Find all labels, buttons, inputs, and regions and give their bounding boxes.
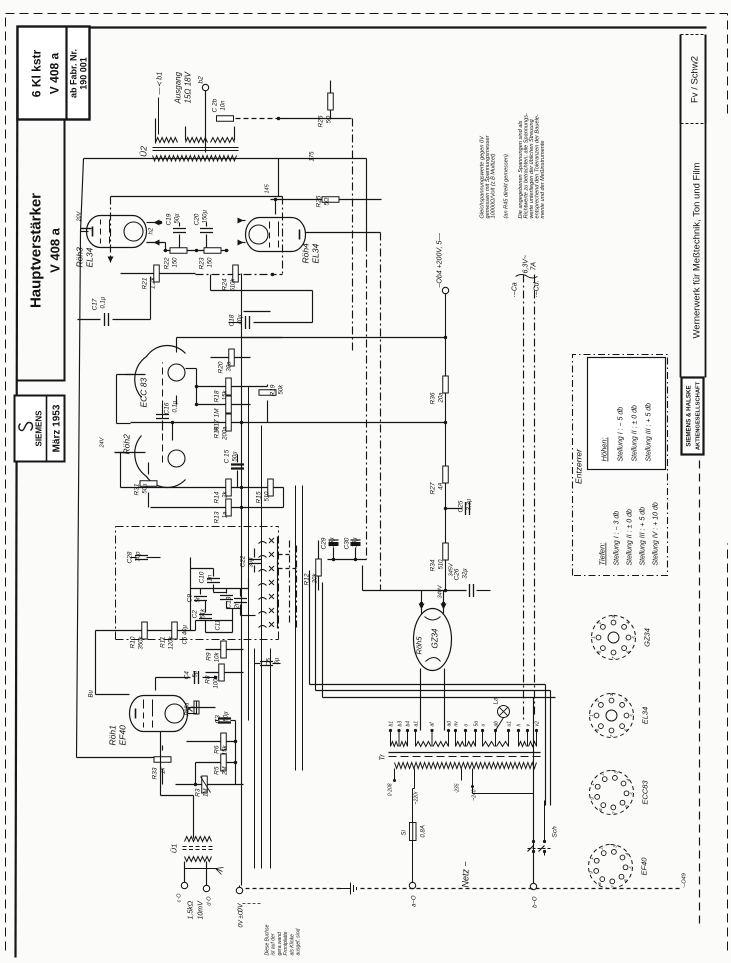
fuse Si bbox=[412, 841, 414, 884]
svg-text:·235: ·235 bbox=[455, 783, 461, 793]
svg-text:·–O49: ·–O49 bbox=[682, 873, 688, 888]
svg-text:C29: C29 bbox=[321, 537, 328, 549]
svg-text:nv: nv bbox=[454, 721, 460, 727]
svg-text:R5: R5 bbox=[214, 766, 221, 775]
svg-text:Sch: Sch bbox=[552, 826, 559, 838]
wire corners down to switch bbox=[545, 685, 547, 806]
terminal b1 wire bbox=[158, 98, 160, 135]
cap C4 bbox=[195, 671, 199, 684]
wire bus x295 bbox=[295, 486, 297, 771]
svg-text:C16: C16 bbox=[164, 402, 171, 414]
svg-text:20a: 20a bbox=[439, 392, 445, 404]
svg-text:pb: pb bbox=[494, 721, 500, 728]
svg-text:R27: R27 bbox=[430, 482, 437, 494]
svg-text:120k: 120k bbox=[169, 636, 175, 650]
svg-text:50µ: 50µ bbox=[175, 213, 181, 224]
svg-text:R13: R13 bbox=[214, 511, 221, 523]
wire Roeh4 top to R25 bbox=[275, 200, 277, 215]
transformer UE1 windings bbox=[185, 837, 212, 842]
cap C17 bbox=[105, 313, 109, 326]
wire 0V bus x241 bbox=[241, 274, 243, 886]
terminal 0V bbox=[236, 887, 242, 893]
svg-text:5Ω: 5Ω bbox=[327, 115, 333, 123]
wire EF40 grid to UE1 bbox=[160, 732, 162, 796]
svg-text:50µ: 50µ bbox=[143, 483, 149, 494]
ground bbox=[341, 883, 357, 895]
wires GZ34 anodes bbox=[420, 669, 422, 731]
terminal a bbox=[409, 882, 415, 888]
svg-text:C17: C17 bbox=[92, 298, 99, 310]
Hoehen table bbox=[588, 358, 666, 470]
svg-text:150: 150 bbox=[173, 257, 179, 268]
svg-text:b1: b1 bbox=[389, 721, 395, 727]
svg-text:2M: 2M bbox=[223, 767, 229, 776]
svg-text:b2: b2 bbox=[198, 76, 205, 84]
tube Roeh5 GZ34 bbox=[414, 609, 452, 671]
UE1 shield bbox=[185, 868, 216, 870]
wire cathode row y250 bbox=[164, 250, 229, 252]
Entzerrer box bbox=[573, 355, 668, 576]
svg-text:7A: 7A bbox=[531, 262, 538, 271]
svg-text:3,3µ: 3,3µ bbox=[467, 498, 473, 510]
svg-text:·R25a: ·R25a bbox=[185, 703, 191, 718]
svg-text:SIEMENS & HALSKE: SIEMENS & HALSKE bbox=[686, 385, 693, 446]
svg-text:V 408 a: V 408 a bbox=[48, 52, 62, 94]
svg-text:u1: u1 bbox=[507, 721, 513, 727]
cap C30 bbox=[351, 542, 361, 546]
svg-text:R8: R8 bbox=[205, 675, 212, 684]
cap C20 bbox=[200, 229, 213, 233]
wire dashdot x296 bbox=[296, 546, 298, 629]
cap C15 bbox=[231, 465, 244, 469]
wire coupling to EL34 grids bbox=[210, 275, 212, 291]
cap C2 bbox=[199, 615, 212, 619]
bottom strip: Wernerwerk cell bbox=[680, 124, 682, 378]
transformer Tr primary bbox=[395, 763, 537, 769]
svg-text:5n: 5n bbox=[196, 595, 202, 602]
wire C2b dashed to right bbox=[236, 118, 279, 120]
svg-text:5µ: 5µ bbox=[193, 670, 199, 677]
bottom strip: Fv/Schw2 cell bbox=[680, 35, 682, 124]
wire b2 to secondary bbox=[205, 91, 207, 153]
svg-text:·–Cd.: ·–Cd. bbox=[534, 280, 541, 297]
wire x235 join bbox=[235, 721, 237, 785]
dashed 0V line bottom bbox=[246, 888, 341, 890]
resistor R33 bbox=[154, 757, 171, 763]
svg-text:af: af bbox=[430, 722, 436, 727]
svg-text:C28: C28 bbox=[127, 551, 134, 563]
svg-text:Stellung I : − 5 db: Stellung I : − 5 db bbox=[618, 407, 625, 462]
svg-text:Röh2: Röh2 bbox=[122, 434, 132, 455]
svg-text:ab Fabr. Nr.: ab Fabr. Nr. bbox=[69, 49, 79, 98]
svg-text:C5: C5 bbox=[266, 658, 273, 667]
svg-text:mente und der Meßinstrumente: mente und der Meßinstrumente bbox=[540, 140, 546, 218]
svg-text:1n: 1n bbox=[208, 574, 214, 581]
svg-text:340V: 340V bbox=[438, 584, 444, 598]
svg-text:Stellung IV : + 10 db: Stellung IV : + 10 db bbox=[653, 502, 660, 565]
svg-text:40µ: 40µ bbox=[238, 314, 244, 325]
svg-text:Ü2: Ü2 bbox=[139, 146, 149, 157]
svg-text:50µ: 50µ bbox=[233, 451, 239, 462]
svg-text:R24: R24 bbox=[222, 278, 229, 290]
svg-text:0V ±O: 0V ±O bbox=[239, 910, 245, 927]
terminal Ob4 bbox=[442, 287, 448, 293]
transformer Tr secondaries bbox=[391, 742, 399, 747]
tube Roeh2 ECC83 system a bbox=[135, 346, 186, 398]
svg-text:a–O: a–O bbox=[412, 895, 418, 907]
svg-text:2: 2 bbox=[597, 621, 602, 625]
svg-text:Wernerwerk für Meßtechnik, Ton: Wernerwerk für Meßtechnik, Ton und Film bbox=[692, 162, 703, 338]
svg-text:C20: C20 bbox=[194, 213, 201, 225]
equalizer dashdot box bbox=[115, 527, 117, 640]
wire screen dashdot down bbox=[380, 233, 382, 591]
svg-text:6,3V~: 6,3V~ bbox=[523, 255, 530, 274]
svg-text:4A: 4A bbox=[439, 483, 445, 490]
cap C16 bbox=[156, 415, 169, 419]
svg-text:5a: 5a bbox=[474, 721, 480, 727]
svg-text:Röh1: Röh1 bbox=[108, 725, 118, 746]
svg-text:SIEMENS: SIEMENS bbox=[35, 410, 44, 447]
svg-text:u: u bbox=[481, 724, 487, 727]
svg-text:510: 510 bbox=[439, 559, 445, 570]
svg-text:20k: 20k bbox=[313, 573, 319, 585]
svg-text:10k: 10k bbox=[215, 652, 221, 663]
svg-text:Tr: Tr bbox=[378, 754, 387, 761]
svg-text:h2: h2 bbox=[149, 227, 155, 234]
svg-text:10000Ω/Volt (z.B Multizet): 10000Ω/Volt (z.B Multizet) bbox=[491, 153, 497, 218]
svg-text:GZ34: GZ34 bbox=[643, 628, 652, 647]
svg-text:Hauptverstärker: Hauptverstärker bbox=[28, 193, 45, 308]
svg-text:Höhen:: Höhen: bbox=[600, 437, 609, 461]
svg-text:15Ω 18V: 15Ω 18V bbox=[184, 71, 193, 103]
svg-text:b4: b4 bbox=[406, 721, 412, 727]
switch wafer bar bbox=[277, 537, 279, 629]
resistor R26 bbox=[330, 81, 332, 119]
svg-text:Bu: Bu bbox=[89, 689, 95, 697]
resistor R31 bbox=[140, 481, 157, 487]
wire B+ rail bbox=[445, 294, 447, 591]
svg-text:C19: C19 bbox=[166, 213, 173, 225]
svg-text:100k: 100k bbox=[214, 675, 220, 689]
junction dots bus bbox=[240, 421, 243, 424]
svg-text:6 Kl kstr: 6 Kl kstr bbox=[30, 49, 44, 97]
wire triode-b anode bbox=[172, 423, 174, 441]
svg-text:C18: C18 bbox=[229, 314, 236, 326]
output terminal b2 bbox=[202, 84, 208, 90]
svg-text:Diese Buchse: Diese Buchse bbox=[265, 924, 271, 955]
wire C18 left branch bbox=[244, 311, 271, 313]
transformer UE2 primary windings bbox=[156, 138, 178, 143]
cap C19 bbox=[173, 229, 186, 233]
transformer UE2 secondary winding bbox=[153, 156, 237, 162]
svg-text:c·O: c·O bbox=[177, 893, 183, 903]
cap C10 bbox=[207, 579, 220, 583]
cap C11 bbox=[220, 596, 233, 600]
svg-text:Fv / Schw2: Fv / Schw2 bbox=[690, 56, 701, 103]
svg-text:190 001: 190 001 bbox=[79, 57, 89, 90]
svg-text:1,2k: 1,2k bbox=[151, 277, 157, 289]
wire dashdot down from top feed bbox=[352, 119, 354, 351]
wire grid row dashdot bbox=[196, 274, 273, 276]
svg-text:145: 145 bbox=[265, 183, 271, 193]
resistor R15 bbox=[268, 479, 274, 496]
svg-text:0,1µ: 0,1µ bbox=[173, 400, 179, 412]
svg-text:~220r: ~220r bbox=[414, 791, 420, 804]
svg-text:50k: 50k bbox=[279, 384, 285, 395]
svg-text:R10: R10 bbox=[130, 636, 137, 648]
svg-text:1k: 1k bbox=[161, 767, 167, 774]
socket EL34 bbox=[590, 694, 634, 738]
svg-text:o: o bbox=[464, 724, 470, 727]
svg-text:Netz ~: Netz ~ bbox=[461, 861, 471, 887]
socket GZ34 bbox=[592, 616, 636, 660]
svg-text:1a: 1a bbox=[223, 511, 229, 518]
svg-text:R19: R19 bbox=[270, 384, 277, 396]
terminal b bbox=[530, 883, 536, 889]
tube envelope dashes bbox=[162, 363, 164, 463]
wire bus x254 bbox=[254, 649, 256, 869]
resistor R10 bbox=[96, 630, 196, 632]
wire bus x302 bbox=[302, 486, 304, 771]
wires switch to transformer bbox=[533, 794, 535, 806]
cap C29 bbox=[329, 542, 339, 546]
svg-text:Stellung I : − 3 db: Stellung I : − 3 db bbox=[614, 511, 621, 566]
svg-text:R36: R36 bbox=[430, 392, 437, 404]
svg-text:32µ: 32µ bbox=[463, 568, 469, 579]
svg-text:C22: C22 bbox=[240, 555, 247, 567]
cap C13 bbox=[234, 599, 247, 603]
svg-text:R25: R25 bbox=[316, 195, 323, 207]
wire nfb line x78 bbox=[77, 232, 81, 758]
svg-text:10mV: 10mV bbox=[198, 900, 205, 920]
transformer UE1 core bbox=[183, 849, 214, 851]
svg-text:16µ: 16µ bbox=[330, 537, 336, 548]
cap C25 bbox=[446, 508, 463, 510]
svg-text:R21: R21 bbox=[142, 277, 149, 289]
svg-text:h: h bbox=[517, 724, 523, 727]
resistor R14 row y487 bbox=[121, 487, 284, 489]
resistor R8 bbox=[206, 672, 244, 674]
svg-text:b–O: b–O bbox=[533, 896, 539, 908]
svg-text:2k: 2k bbox=[223, 491, 229, 499]
bottom strip: Siemens & Halske box bbox=[682, 378, 704, 455]
wire R25 tail bbox=[342, 199, 382, 201]
resistor R9 bbox=[206, 649, 244, 651]
cap C9 bbox=[194, 597, 207, 601]
svg-text:R14: R14 bbox=[214, 491, 221, 503]
wire triode-a cathode bbox=[176, 396, 178, 405]
svg-text:30µ: 30µ bbox=[249, 557, 255, 568]
svg-text:EL34: EL34 bbox=[311, 243, 321, 263]
svg-text:AKTIENGESELLSCHAFT: AKTIENGESELLSCHAFT bbox=[696, 381, 702, 450]
svg-text:Röh4: Röh4 bbox=[301, 243, 311, 264]
svg-text:V 408 a: V 408 a bbox=[48, 227, 63, 273]
svg-text:R31: R31 bbox=[134, 483, 141, 495]
svg-text:ECC 83: ECC 83 bbox=[139, 377, 149, 407]
svg-text:R22: R22 bbox=[164, 257, 171, 269]
svg-text:EF40: EF40 bbox=[640, 857, 649, 876]
resistor R6 bbox=[187, 741, 236, 743]
wire dashdot x289 bbox=[289, 541, 291, 623]
wires GZ34 cathode bbox=[421, 591, 423, 604]
resistor R24 bbox=[233, 265, 239, 282]
resistor R16 row bbox=[131, 422, 445, 424]
svg-text:v2: v2 bbox=[535, 721, 541, 727]
svg-text:510: 510 bbox=[265, 491, 271, 502]
svg-text:Röh3: Röh3 bbox=[75, 247, 85, 268]
svg-text:Stellung II : ± 0 db: Stellung II : ± 0 db bbox=[632, 405, 639, 461]
svg-text:R20: R20 bbox=[218, 361, 225, 373]
svg-text:20V: 20V bbox=[77, 210, 83, 222]
svg-text:C26: C26 bbox=[454, 568, 461, 580]
svg-text:R16: R16 bbox=[214, 426, 221, 438]
tube Roeh2 ECC83 system b bbox=[135, 436, 186, 488]
wire secondary bottom to feedback bbox=[84, 158, 367, 160]
svg-text:C10: C10 bbox=[199, 571, 206, 583]
svg-text:51k: 51k bbox=[201, 608, 207, 619]
svg-text:200a: 200a bbox=[223, 426, 229, 441]
svg-text:C 2b: C 2b bbox=[212, 98, 219, 112]
wire screen feed bbox=[95, 631, 97, 695]
wire 0V corner lines bbox=[309, 571, 311, 685]
svg-text:C25: C25 bbox=[458, 500, 465, 512]
resistor R25 bbox=[271, 199, 342, 201]
svg-text:R26: R26 bbox=[318, 115, 325, 127]
svg-text:150µ: 150µ bbox=[203, 209, 209, 223]
resistor R11 bbox=[172, 622, 178, 639]
potentiometer R25a bbox=[194, 701, 199, 714]
svg-text:Ausgang: Ausgang bbox=[174, 71, 183, 104]
wire right jog x283 bbox=[283, 488, 285, 508]
svg-text:Ü1: Ü1 bbox=[170, 844, 179, 854]
svg-text:C4: C4 bbox=[184, 671, 191, 680]
svg-text:C2: C2 bbox=[192, 610, 199, 619]
svg-text:1M: 1M bbox=[204, 789, 210, 797]
svg-text:R18: R18 bbox=[214, 390, 221, 402]
svg-text:2: 2 bbox=[599, 846, 604, 850]
svg-text:1,5kΩ: 1,5kΩ bbox=[188, 900, 195, 919]
svg-text:ist auf der: ist auf der bbox=[271, 933, 277, 955]
svg-text:0·208: 0·208 bbox=[388, 783, 394, 796]
wire y559 bbox=[328, 559, 367, 561]
cap C18 bbox=[246, 316, 250, 329]
svg-text:350k: 350k bbox=[139, 636, 145, 650]
main frame top border bbox=[16, 27, 18, 958]
Siemens logo box bbox=[15, 396, 65, 462]
svg-text:R34: R34 bbox=[430, 559, 437, 571]
svg-text:R23: R23 bbox=[199, 257, 206, 269]
resistor R21 bbox=[154, 265, 160, 282]
svg-text:5Ω: 5Ω bbox=[325, 197, 331, 205]
wire dash stub b bbox=[279, 568, 297, 570]
main frame bottom dashed border bbox=[699, 454, 701, 924]
resistor R27 bbox=[443, 466, 449, 483]
svg-text:C 15: C 15 bbox=[224, 449, 231, 463]
resistor R23 bbox=[204, 248, 221, 254]
resistor R20 bbox=[211, 357, 251, 359]
transformer UE2 core bbox=[153, 150, 239, 152]
op tube Roeh3 EL34 bbox=[87, 216, 147, 248]
svg-text:gera.wand: gera.wand bbox=[277, 932, 283, 956]
svg-text:Frontplatte: Frontplatte bbox=[283, 931, 289, 955]
wire B+ filter to rectifier bbox=[363, 590, 467, 592]
svg-text:EL34: EL34 bbox=[85, 247, 95, 267]
svg-text:50µ: 50µ bbox=[224, 711, 230, 722]
svg-text:d·O: d·O bbox=[207, 896, 213, 906]
switch wafer contacts bbox=[259, 542, 267, 544]
wire EF40 pins bbox=[187, 713, 197, 715]
svg-text:10n: 10n bbox=[221, 100, 227, 111]
svg-text:Stellung III : + 5 db: Stellung III : + 5 db bbox=[646, 403, 653, 462]
svg-text:R9: R9 bbox=[206, 652, 213, 661]
resistor R34 bbox=[443, 543, 449, 560]
svg-text:5µ: 5µ bbox=[275, 657, 281, 664]
svg-text:Si: Si bbox=[402, 829, 408, 835]
wire dash stub a bbox=[279, 554, 290, 556]
wire Roeh3 cathode bbox=[81, 159, 84, 232]
resistor C2b bbox=[217, 116, 234, 122]
wire Roeh4 anode right bbox=[306, 232, 381, 234]
svg-text:C30: C30 bbox=[344, 537, 351, 549]
svg-text:R6: R6 bbox=[214, 745, 221, 754]
tap terminals bbox=[393, 779, 396, 782]
svg-text:175: 175 bbox=[310, 151, 316, 162]
resistor R18 row bbox=[197, 386, 268, 388]
svg-text:R11: R11 bbox=[160, 636, 167, 648]
wire triode-a anode up bbox=[176, 338, 178, 353]
wire triode-b grid cathode bar bbox=[121, 452, 146, 454]
cap C3 bbox=[218, 719, 231, 723]
svg-text:C5 40µ: C5 40µ bbox=[183, 624, 189, 644]
svg-text:als Klinke: als Klinke bbox=[289, 934, 295, 956]
svg-text:EF40: EF40 bbox=[118, 725, 128, 746]
svg-text:2: 2 bbox=[595, 699, 600, 703]
svg-text:C11: C11 bbox=[216, 620, 222, 631]
main frame right border bbox=[18, 26, 707, 28]
svg-text:R33: R33 bbox=[152, 767, 159, 779]
wire stack x196 bbox=[196, 369, 198, 405]
transformer Tr core bbox=[389, 756, 541, 758]
svg-text:C3: C3 bbox=[215, 715, 222, 724]
title block: 6 Kl kstr / V 408 a bbox=[18, 27, 90, 120]
svg-text:b3: b3 bbox=[398, 721, 404, 727]
lamp La bbox=[498, 706, 510, 718]
cap C28 bbox=[135, 556, 148, 560]
svg-text:R3: R3 bbox=[195, 788, 202, 797]
svg-text:(an R45 direkt gemessen): (an R45 direkt gemessen) bbox=[504, 154, 510, 218]
switch Sch bbox=[533, 852, 535, 884]
svg-text:·–Ca: ·–Ca bbox=[512, 282, 519, 297]
svg-text:ad: ad bbox=[447, 721, 453, 727]
primary taps bbox=[394, 769, 396, 781]
resistor R17 row bbox=[197, 404, 251, 406]
wire B+ to C18 branch bbox=[241, 337, 446, 339]
wire nfb to R33 bbox=[77, 757, 159, 759]
svg-text:0,1µ: 0,1µ bbox=[101, 296, 107, 308]
resistor R22 bbox=[170, 248, 187, 254]
svg-text:Stellung III : + 5 db: Stellung III : + 5 db bbox=[640, 507, 647, 566]
resistor R36 bbox=[443, 376, 449, 393]
resistor R3 bbox=[176, 784, 244, 786]
wires inside equalizer bbox=[190, 558, 192, 631]
wire bus x261 bbox=[261, 426, 263, 869]
wire Roeh3 grid dashdot bbox=[110, 197, 112, 263]
tube Roeh4 EL34 bbox=[246, 218, 306, 252]
svg-text:30a: 30a bbox=[227, 361, 233, 372]
svg-text:ECC83: ECC83 bbox=[641, 780, 650, 805]
svg-text:2: 2 bbox=[600, 772, 605, 776]
svg-text:150: 150 bbox=[208, 257, 214, 268]
